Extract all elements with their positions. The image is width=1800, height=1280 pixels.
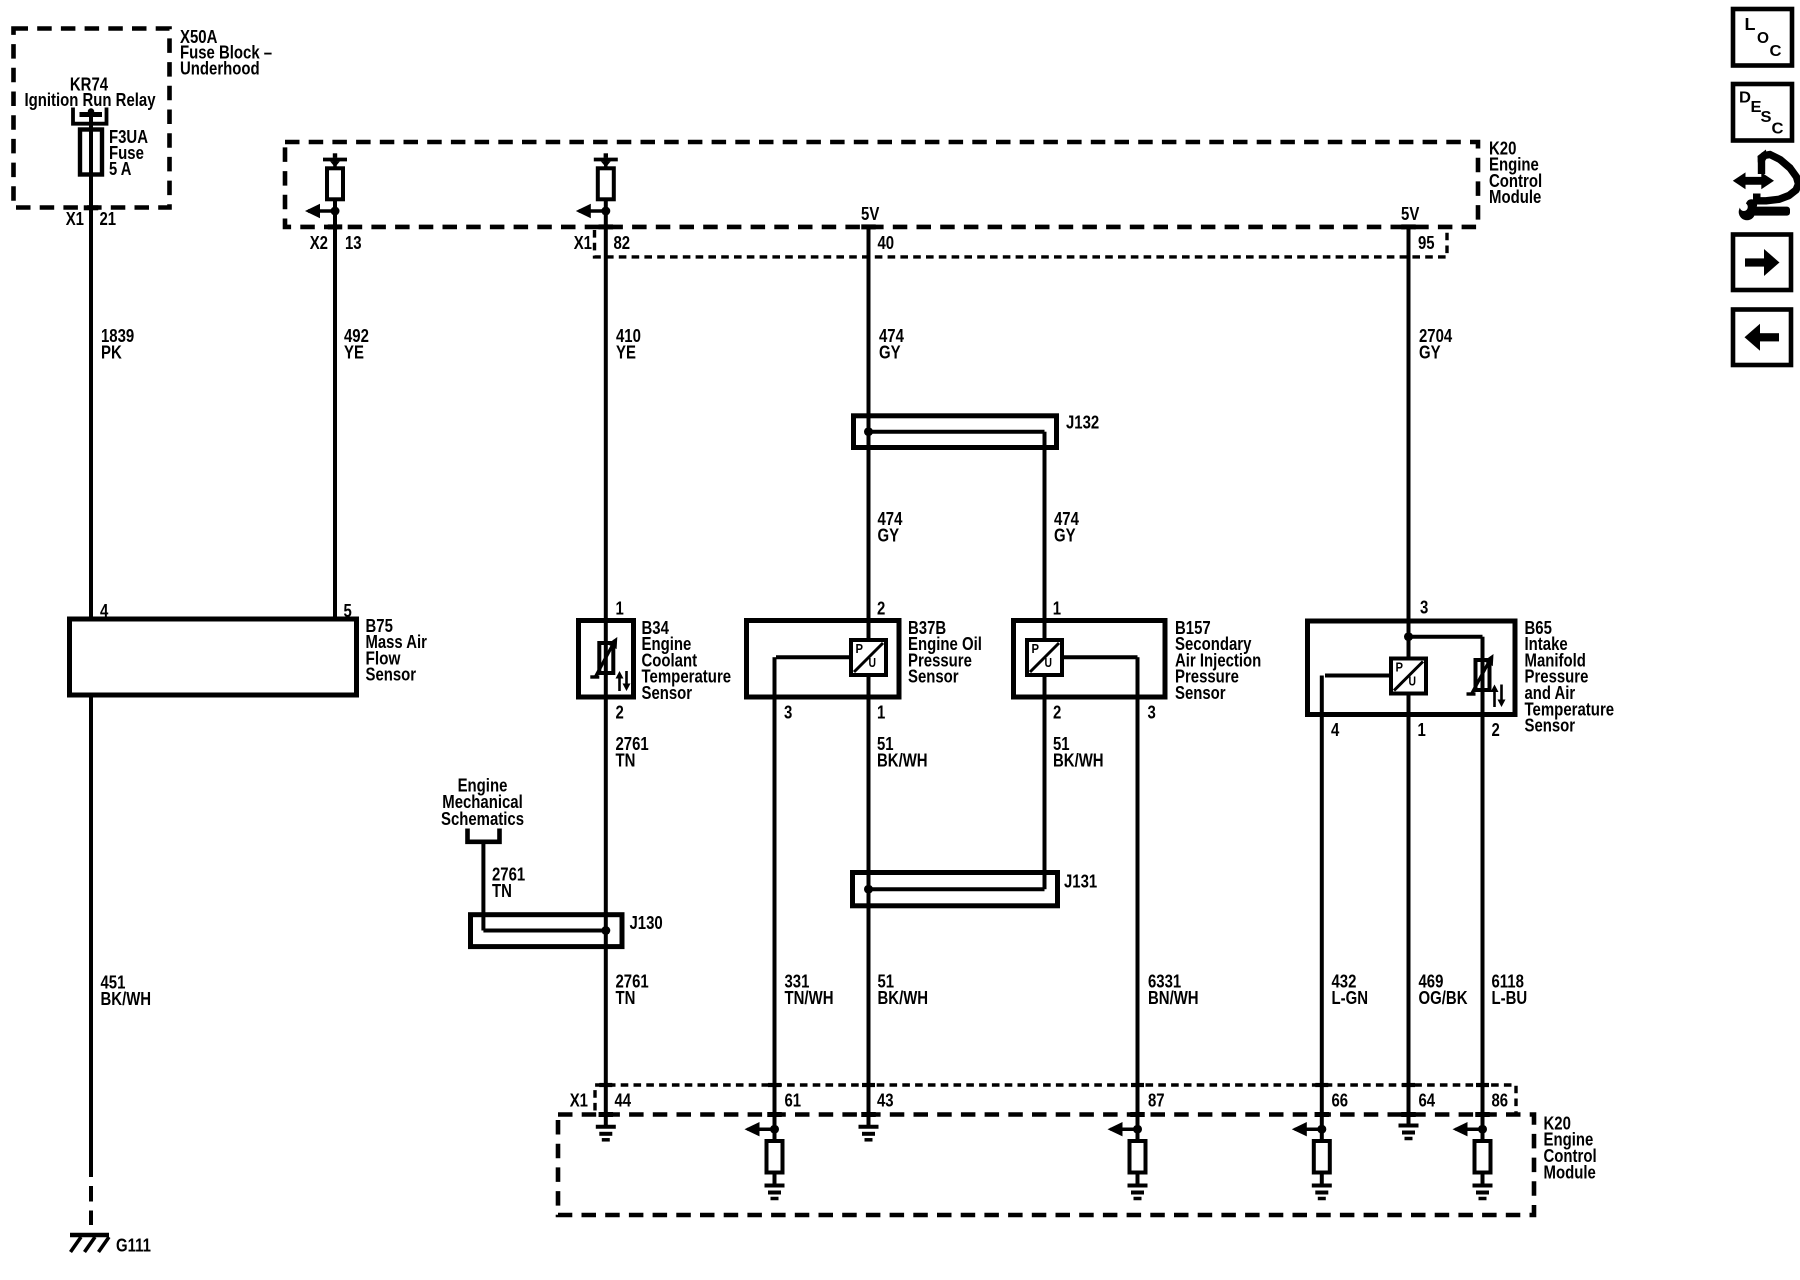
pin tick 43 dashed xyxy=(861,1112,876,1117)
ground at pin 66 xyxy=(1312,1184,1332,1188)
wire 474 GY from pin 40 xyxy=(867,227,871,418)
svg-text:Sensor: Sensor xyxy=(642,683,693,703)
svg-text:Underhood: Underhood xyxy=(180,58,260,78)
splice J131 box xyxy=(853,873,1058,906)
pin tick 13 xyxy=(328,224,343,229)
svg-text:J131: J131 xyxy=(1064,872,1097,892)
junction dot pin 66 xyxy=(1317,1125,1326,1134)
svg-text:OG/BK: OG/BK xyxy=(1419,988,1468,1008)
wire through J131 xyxy=(867,870,871,908)
arrow left pin 66 xyxy=(1295,1127,1322,1131)
svg-text:O: O xyxy=(1757,30,1769,47)
pin tick 64 dashed xyxy=(1401,1112,1416,1117)
svg-text:40: 40 xyxy=(878,233,895,253)
svg-text:Sensor: Sensor xyxy=(366,665,417,685)
svg-text:P: P xyxy=(856,641,864,656)
svg-text:Module: Module xyxy=(1544,1162,1596,1182)
arrow left pin 86 xyxy=(1456,1127,1483,1131)
wire 432 L-GN xyxy=(1320,715,1324,1130)
junction dot B65 xyxy=(1404,632,1413,641)
wire branch inside J130 xyxy=(481,915,485,931)
ECM internal resistor pin 87 xyxy=(1136,1129,1140,1141)
svg-text:66: 66 xyxy=(1332,1091,1349,1111)
pressure transducer P/U B37B xyxy=(851,640,886,675)
wire B37B transducer to pin3 xyxy=(776,655,853,659)
wire branch to thermistor B65 xyxy=(1409,635,1483,639)
svg-text:5V: 5V xyxy=(1401,204,1419,224)
junction dot pin 86 xyxy=(1478,1125,1487,1134)
svg-text:BK/WH: BK/WH xyxy=(877,751,928,771)
ground at pin 86 xyxy=(1473,1184,1493,1188)
svg-text:TN: TN xyxy=(492,881,512,901)
junction dot X2-13 xyxy=(331,207,340,216)
wire through fuse F3UA xyxy=(89,130,93,209)
sensor B34 box xyxy=(579,621,634,698)
svg-text:TN: TN xyxy=(616,751,636,771)
ground at pin 61 xyxy=(765,1184,785,1188)
svg-text:2: 2 xyxy=(1053,702,1061,722)
svg-text:64: 64 xyxy=(1419,1091,1436,1111)
wire 2761 TN lower xyxy=(604,947,608,1127)
icon back arrow box xyxy=(1733,310,1791,366)
wire 51 BK/WH (lower) xyxy=(867,906,871,1127)
svg-text:J130: J130 xyxy=(630,913,663,933)
svg-text:BK/WH: BK/WH xyxy=(878,988,929,1008)
svg-text:2: 2 xyxy=(877,598,885,618)
sensor B75 box xyxy=(70,619,357,695)
svg-text:GY: GY xyxy=(878,525,900,545)
ground at pin 43 xyxy=(859,1125,879,1129)
wire B37B pin2 to transducer xyxy=(867,621,871,643)
svg-text:43: 43 xyxy=(877,1091,894,1111)
ground G111 chassis symbol xyxy=(70,1233,109,1237)
wire 1839 PK xyxy=(89,208,93,621)
ground at pin 64 xyxy=(1399,1124,1419,1128)
pin tick 95 xyxy=(1401,224,1416,229)
svg-text:YE: YE xyxy=(616,342,636,362)
thermistor inside B65 xyxy=(1476,660,1490,690)
pin tick 64 dotted xyxy=(1402,1083,1415,1087)
wire B65 thermistor to pin2 xyxy=(1481,690,1485,715)
wire resistor to ground pin 61 xyxy=(773,1173,777,1185)
ECM internal resistor pin 61 xyxy=(773,1129,777,1141)
icon schematic-reference (arrows and wrench) xyxy=(1757,155,1799,201)
svg-text:X1: X1 xyxy=(570,1091,588,1111)
svg-text:Ignition Run Relay: Ignition Run Relay xyxy=(24,90,155,110)
svg-text:X1: X1 xyxy=(66,209,84,229)
svg-text:2: 2 xyxy=(1492,720,1500,740)
pin tick 87 dotted xyxy=(1131,1083,1144,1087)
junction dot J131 xyxy=(864,885,873,894)
wire 51 BK/WH (B157) xyxy=(1043,697,1047,874)
junction dot pin 61 xyxy=(770,1125,779,1134)
pin tick 44 dashed xyxy=(599,1112,614,1117)
svg-text:BN/WH: BN/WH xyxy=(1148,988,1199,1008)
svg-text:D: D xyxy=(1739,89,1751,106)
pressure transducer P/U B157 xyxy=(1027,640,1062,675)
svg-text:X2: X2 xyxy=(310,233,328,253)
icon LOC box xyxy=(1733,9,1792,66)
wire B157 pin1 to transducer xyxy=(1043,621,1047,643)
svg-text:Sensor: Sensor xyxy=(908,667,959,687)
svg-text:1: 1 xyxy=(1053,598,1061,618)
wire resistor to ground pin 87 xyxy=(1136,1173,1140,1185)
icon DESC box xyxy=(1733,84,1792,141)
pin tick 66 dashed xyxy=(1315,1112,1330,1117)
pin tick 61 dotted xyxy=(768,1083,781,1087)
svg-text:BK/WH: BK/WH xyxy=(101,989,152,1009)
svg-text:4: 4 xyxy=(1331,720,1339,740)
ECM internal resistor to X1-82 xyxy=(604,153,608,158)
svg-text:61: 61 xyxy=(785,1091,802,1111)
wire 6331 BN/WH xyxy=(1136,697,1140,1129)
junction dot J130 xyxy=(601,926,610,935)
svg-text:X1: X1 xyxy=(574,233,592,253)
wire branch inside J131 xyxy=(1043,873,1047,890)
relay KR74 contact xyxy=(73,108,107,124)
wire through J132 xyxy=(867,413,871,450)
svg-text:L-BU: L-BU xyxy=(1492,988,1528,1008)
svg-text:21: 21 xyxy=(100,209,117,229)
svg-text:5V: 5V xyxy=(861,204,879,224)
wire resistor to pin X2-13 xyxy=(333,199,337,227)
svg-text:Sensor: Sensor xyxy=(1175,683,1226,703)
wire resistor to pin X1-82 xyxy=(604,199,608,227)
pin tick 44 dotted xyxy=(599,1083,612,1087)
svg-text:U: U xyxy=(1045,655,1053,670)
wire B37B transducer to pin1 xyxy=(867,674,871,698)
svg-text:U: U xyxy=(1409,673,1417,688)
svg-text:TN/WH: TN/WH xyxy=(785,988,834,1008)
wire 474 GY to B37B pin 2 xyxy=(867,448,871,623)
svg-text:GY: GY xyxy=(879,342,901,362)
splice J130 box xyxy=(471,915,623,947)
updown arrows B65 xyxy=(1493,691,1496,708)
pin tick 82 xyxy=(599,224,614,229)
splice J132 box xyxy=(854,416,1057,448)
fuse block X50A dashed outline xyxy=(14,29,170,208)
svg-text:L: L xyxy=(1745,14,1756,34)
svg-text:C: C xyxy=(1770,43,1782,60)
updown arrows B34 xyxy=(618,677,621,691)
ECM internal resistor to X2-13 xyxy=(333,153,337,158)
wire 410 YE xyxy=(604,227,608,622)
svg-text:82: 82 xyxy=(614,233,631,253)
arrow left at X1-82 xyxy=(579,209,606,213)
svg-text:Schematics: Schematics xyxy=(441,809,524,829)
junction dot J132 xyxy=(864,427,873,436)
ground at pin 87 xyxy=(1128,1184,1148,1188)
svg-text:P: P xyxy=(1032,641,1040,656)
wire B157 transducer to pin2 xyxy=(1043,674,1047,698)
wire through J130 vertical xyxy=(604,912,608,949)
wire B75 pin 2 down xyxy=(89,695,93,1177)
svg-text:G111: G111 xyxy=(116,1236,151,1256)
svg-text:Sensor: Sensor xyxy=(1525,716,1576,736)
svg-text:Module: Module xyxy=(1489,187,1541,207)
wire 469 OG/BK xyxy=(1407,715,1411,1126)
wire B65 pin3 to transducer xyxy=(1407,621,1411,661)
svg-text:3: 3 xyxy=(1148,702,1156,722)
ECM internal resistor pin 86 xyxy=(1481,1129,1485,1141)
wire 474 GY to B157 pin 1 xyxy=(1043,448,1047,623)
svg-text:BK/WH: BK/WH xyxy=(1053,751,1104,771)
wire dashed to G111 xyxy=(89,1186,93,1202)
svg-text:87: 87 xyxy=(1148,1091,1165,1111)
wire from bracket to J130 xyxy=(481,842,485,918)
sensor B65 box xyxy=(1308,621,1516,715)
svg-text:2: 2 xyxy=(616,702,624,722)
svg-text:L-GN: L-GN xyxy=(1332,988,1369,1008)
pin tick 87 dashed xyxy=(1130,1112,1145,1117)
ground at pin 44 xyxy=(596,1125,616,1129)
icon forward arrow box xyxy=(1733,235,1791,291)
wire from relay to fuse xyxy=(89,111,93,131)
svg-text:13: 13 xyxy=(345,233,362,253)
ECM X1 connector dotted boundary (bottom) xyxy=(595,1085,1516,1115)
wire B157 transducer to pin3 xyxy=(1060,655,1138,659)
arrow left pin 87 xyxy=(1111,1127,1138,1131)
thermistor inside B34 xyxy=(599,643,613,673)
svg-text:TN: TN xyxy=(616,988,636,1008)
wire B65 transducer to pin1 xyxy=(1407,692,1411,715)
sensor B157 box xyxy=(1014,621,1166,698)
wire B65 transducer to pin4 xyxy=(1325,674,1394,678)
svg-text:86: 86 xyxy=(1492,1091,1509,1111)
wire 331 TN/WH xyxy=(773,697,777,1129)
junction dot pin 87 xyxy=(1133,1125,1142,1134)
svg-text:5 A: 5 A xyxy=(109,159,131,179)
svg-text:3: 3 xyxy=(1420,597,1428,617)
pressure transducer P/U B65 xyxy=(1391,659,1426,694)
pin tick 86 dashed xyxy=(1475,1112,1490,1117)
arrow left at X2-13 xyxy=(308,209,335,213)
pin tick 43 dotted xyxy=(862,1083,875,1087)
svg-text:P: P xyxy=(1396,659,1404,674)
svg-text:U: U xyxy=(869,655,877,670)
svg-text:S: S xyxy=(1761,109,1772,126)
wire inside B34 xyxy=(604,621,608,698)
svg-text:YE: YE xyxy=(344,342,364,362)
wire 2761 TN upper xyxy=(604,697,608,916)
svg-text:1: 1 xyxy=(877,702,885,722)
svg-text:95: 95 xyxy=(1418,233,1435,253)
sensor B37B box xyxy=(747,621,900,698)
fuse F3UA xyxy=(80,130,102,175)
pin tick X1 21 on fuse block edge xyxy=(84,205,99,210)
wire resistor to ground pin 66 xyxy=(1320,1173,1324,1185)
wire 51 BK/WH (B37B) xyxy=(867,697,871,1127)
junction dot X1-82 xyxy=(601,207,610,216)
wire 492 YE xyxy=(333,227,337,621)
ECM K20 top dashed outline xyxy=(285,142,1478,227)
ECM K20 bottom dashed outline xyxy=(558,1115,1534,1216)
off-page connector bracket xyxy=(468,829,500,842)
wire resistor to ground pin 86 xyxy=(1481,1173,1485,1185)
svg-text:3: 3 xyxy=(784,702,792,722)
svg-text:J132: J132 xyxy=(1066,413,1099,433)
wire 2704 GY xyxy=(1407,227,1411,623)
svg-text:1: 1 xyxy=(616,598,624,618)
ECM X1 connector dotted boundary (top) xyxy=(595,230,1448,257)
pin tick 86 dotted xyxy=(1476,1083,1489,1087)
svg-text:44: 44 xyxy=(615,1091,632,1111)
wire branch inside J132 xyxy=(867,430,1045,434)
svg-text:C: C xyxy=(1772,121,1784,138)
svg-text:PK: PK xyxy=(101,342,122,362)
svg-text:GY: GY xyxy=(1419,342,1441,362)
svg-text:1: 1 xyxy=(1418,720,1426,740)
pin tick 40 xyxy=(861,224,876,229)
pin tick 61 dashed xyxy=(767,1112,782,1117)
wire 6118 L-BU xyxy=(1481,715,1485,1130)
pin tick 66 dotted xyxy=(1315,1083,1328,1087)
arrow left pin 61 xyxy=(748,1127,775,1131)
svg-text:GY: GY xyxy=(1054,525,1076,545)
ECM internal resistor pin 66 xyxy=(1320,1129,1324,1141)
